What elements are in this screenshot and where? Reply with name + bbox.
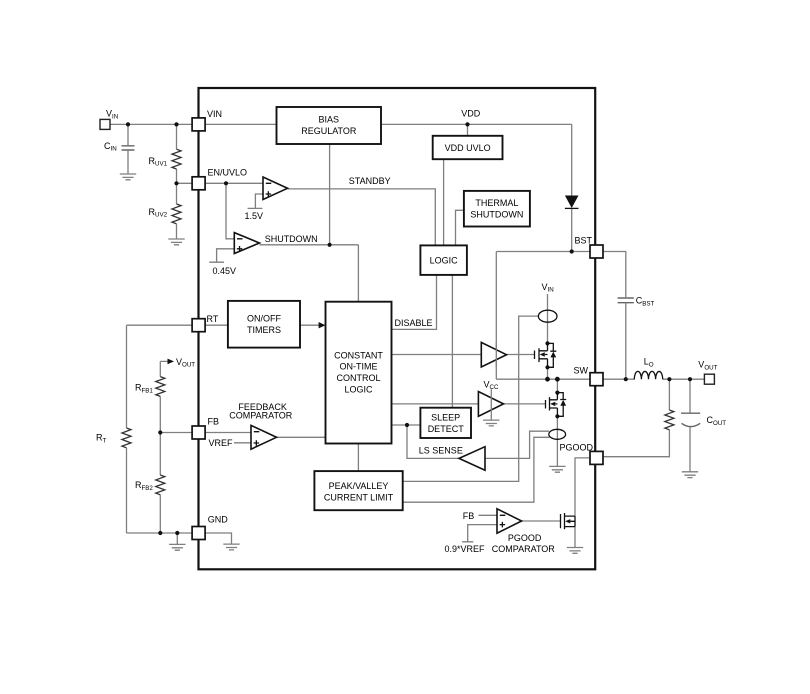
wire EN/UVLO to standby comparator: [205, 182, 263, 184]
svg-text:CONSTANT: CONSTANT: [334, 350, 383, 360]
svg-text:SHUTDOWN: SHUTDOWN: [265, 234, 318, 244]
node LS drain: [555, 391, 559, 395]
svg-text:VDD: VDD: [461, 109, 481, 119]
ground left of GND pin: [169, 544, 185, 550]
wire VDD rail from bias regulator to diode: [381, 124, 590, 251]
node RUV1 tap: [174, 122, 178, 126]
node CBST bottom: [624, 377, 628, 381]
wire bias regulator to shutdown net: [329, 144, 331, 245]
svg-text:BIAS: BIAS: [319, 115, 340, 125]
ground below CIN: [120, 174, 136, 180]
amp LS SENSE: [459, 447, 485, 471]
capacitor CBST: [618, 298, 634, 303]
wire RT to external RT resistor: [127, 325, 193, 533]
svg-text:SHUTDOWN: SHUTDOWN: [470, 210, 523, 220]
svg-text:DISABLE: DISABLE: [395, 318, 433, 328]
wire VOUT load resistor to PGOOD pin: [603, 379, 669, 457]
wire SW internal rail: [496, 378, 590, 380]
wire VCC to ground through driver 2: [490, 389, 492, 420]
svg-text:DETECT: DETECT: [428, 424, 465, 434]
node shutdown junction: [328, 243, 332, 247]
resistor RFB1: [156, 377, 165, 397]
wire SHUTDOWN net: [260, 245, 359, 302]
svg-text:SLEEP: SLEEP: [431, 413, 460, 423]
box BIAS REGULATOR: [277, 107, 382, 144]
pin BST: [590, 245, 603, 258]
node COUT tap: [688, 377, 692, 381]
wire CIN branch: [127, 124, 129, 174]
wire VREF input: [234, 442, 251, 444]
wire BST return rail: [496, 252, 571, 380]
resistor RUV2: [172, 204, 181, 224]
svg-text:FB: FB: [463, 511, 475, 521]
wire 0.45V reference: [209, 249, 234, 262]
wire PGOOD mosfet source to ground: [574, 527, 576, 548]
box SLEEP DETECT: [420, 408, 471, 438]
buffer LS gate driver: [478, 392, 503, 417]
pin RT: [192, 319, 205, 332]
node sleep detect junction: [405, 423, 409, 427]
svg-text:EN/UVLO: EN/UVLO: [208, 168, 248, 178]
svg-text:LOGIC: LOGIC: [344, 384, 373, 394]
diode D1 bootstrap: [565, 196, 579, 209]
node CIN tap: [126, 122, 130, 126]
wire on/off timers to COT logic: [300, 324, 320, 326]
wire VIN input rail: [110, 123, 192, 125]
svg-text:VIN: VIN: [207, 109, 222, 119]
wire STANDBY net: [288, 189, 436, 246]
svg-text:1.5V: 1.5V: [245, 211, 264, 221]
box THERMAL SHUTDOWN: [464, 191, 530, 227]
ground below LS driver: [483, 420, 499, 426]
svg-text:CONTROL: CONTROL: [336, 373, 380, 383]
wire RUV2 branch: [176, 183, 178, 239]
pin EN/UVLO: [192, 177, 205, 190]
node RFB2 bottom: [158, 531, 162, 535]
arrowhead VOUT feedback: [168, 359, 175, 365]
box CONSTANT ON-TIME CONTROL LOGIC: [326, 302, 392, 444]
wire 1.5V reference: [248, 194, 263, 208]
wire HS gate drive: [507, 354, 535, 356]
arrowhead timers to COT: [319, 322, 326, 328]
resistor RUV1: [172, 149, 181, 169]
terminal VIN input: [100, 119, 110, 129]
wire COT to driver 1: [392, 354, 482, 356]
box VDD UVLO: [433, 136, 503, 159]
wire thermal shutdown to LOGIC: [456, 210, 464, 245]
wire SW external to inductor: [603, 378, 635, 380]
op-amp feedback comparator U3: [251, 425, 277, 449]
wire LS sense input: [485, 431, 549, 458]
pin GND: [192, 527, 205, 540]
wire VOUT feedback arrow: [160, 361, 192, 533]
wire 0.9*VREF reference: [462, 525, 497, 542]
ground below LS sense: [549, 466, 565, 472]
pin PGOOD: [590, 451, 603, 464]
node VDD tap: [465, 122, 469, 126]
ground below PGOOD MOSFET: [567, 548, 583, 554]
resistor load/pullup: [665, 410, 674, 430]
wire VIN pin to bias regulator: [205, 123, 276, 125]
wire LS gate drive: [504, 403, 546, 405]
wire FB to PGOOD comparator: [479, 514, 498, 516]
wire LS mosfet to sense ellipse and ground: [556, 379, 558, 466]
wire COT to driver 2: [392, 403, 479, 405]
op-amp PGOOD comparator U4: [497, 509, 522, 533]
wire COT to sleep detect: [392, 424, 421, 426]
svg-text:RT: RT: [207, 314, 219, 324]
wire FB pin to feedback comparator: [205, 432, 251, 434]
box PEAK/VALLEY CURRENT LIMIT: [314, 471, 402, 510]
svg-text:REGULATOR: REGULATOR: [301, 126, 357, 136]
ground below RUV2: [168, 239, 184, 245]
svg-text:0.9*VREF: 0.9*VREF: [445, 544, 486, 554]
wire LS sense output to sleep detect node: [407, 425, 459, 458]
capacitor CIN: [122, 146, 135, 150]
svg-text:COMPARATOR: COMPARATOR: [492, 544, 556, 554]
node junction dots: [126, 122, 692, 535]
svg-text:SW: SW: [574, 366, 589, 376]
pin VIN: [192, 118, 205, 131]
transistor Q2 low-side MOSFET: [546, 393, 567, 417]
wire GND pin local grounds: [177, 533, 231, 544]
svg-text:TIMERS: TIMERS: [247, 325, 281, 335]
node SW a: [545, 377, 550, 382]
wire inductor to VOUT: [663, 378, 705, 380]
wire BST rail through driver 1: [495, 342, 497, 367]
wire output capacitor: [689, 379, 691, 472]
svg-text:CURRENT LIMIT: CURRENT LIMIT: [324, 493, 394, 503]
node EN divider: [174, 181, 178, 185]
svg-text:THERMAL: THERMAL: [475, 198, 518, 208]
node load tap: [667, 377, 671, 381]
op-amp standby comparator U1: [263, 177, 288, 200]
IC body border: [199, 88, 596, 569]
svg-text:PGOOD: PGOOD: [560, 443, 594, 453]
box ON/OFF TIMERS: [228, 301, 300, 348]
box LOGIC: [420, 245, 467, 275]
current source HS sense ellipse: [538, 310, 557, 322]
svg-text:STANDBY: STANDBY: [349, 176, 391, 186]
wire DISABLE net: [392, 275, 437, 330]
node SW b: [555, 377, 560, 382]
wire PGOOD comparator output: [522, 520, 561, 522]
wire RT pin to on/off timers: [205, 324, 228, 326]
inductor LO: [634, 371, 662, 379]
resistor RT external: [122, 428, 131, 448]
wire valley current limit to LS sense: [403, 437, 550, 502]
svg-text:LOGIC: LOGIC: [430, 255, 459, 265]
capacitor COUT polarized: [681, 413, 700, 426]
op-amp shutdown comparator U2: [234, 233, 259, 254]
wire peak current limit to HS sense: [403, 316, 539, 481]
svg-text:LS SENSE: LS SENSE: [419, 446, 463, 456]
svg-text:PGOOD: PGOOD: [508, 533, 542, 543]
ground below COUT: [682, 472, 698, 478]
node FB divider: [158, 430, 162, 434]
svg-text:COMPARATOR: COMPARATOR: [229, 410, 293, 420]
wire VIN current source branch: [547, 294, 549, 343]
buffer HS gate driver: [481, 342, 506, 367]
current sink LS sense ellipse: [549, 429, 566, 439]
terminal VOUT output: [704, 374, 714, 384]
wire BST to bootstrap cap: [603, 252, 626, 380]
svg-text:FB: FB: [208, 416, 220, 426]
transistor Q3 PGOOD MOSFET: [561, 513, 576, 529]
svg-text:PEAK/VALLEY: PEAK/VALLEY: [329, 481, 389, 491]
svg-text:VDD UVLO: VDD UVLO: [445, 143, 491, 153]
wire PGOOD pin to mosfet drain: [575, 458, 590, 516]
transistor Q1 high-side MOSFET: [535, 343, 557, 367]
wire COT to peak/valley current limit: [357, 444, 359, 472]
resistor RFB2: [156, 475, 165, 495]
node BST junction: [570, 249, 574, 253]
wire EN junction down to shutdown comparator: [226, 183, 234, 239]
node LS source: [555, 414, 559, 418]
pin SW: [590, 373, 603, 386]
node GND tap: [175, 531, 179, 535]
pin FB: [192, 426, 205, 439]
wire VDD UVLO to LOGIC: [443, 159, 445, 245]
wire LOGIC to sleep detect: [451, 275, 453, 408]
node HS drain: [545, 341, 549, 345]
svg-text:BST: BST: [575, 235, 593, 245]
wire feedback comparator output: [277, 436, 326, 438]
wire HS drain-source to SW: [547, 367, 549, 379]
svg-text:0.45V: 0.45V: [213, 266, 237, 276]
svg-text:GND: GND: [208, 515, 229, 525]
ground right of GND pin: [223, 544, 239, 550]
svg-text:ON/OFF: ON/OFF: [247, 313, 281, 323]
svg-text:ON-TIME: ON-TIME: [340, 362, 378, 372]
wire RUV1 branch: [177, 124, 193, 183]
node EN comparator tap: [224, 181, 228, 185]
svg-text:VREF: VREF: [209, 438, 234, 448]
node HS source: [545, 365, 549, 369]
